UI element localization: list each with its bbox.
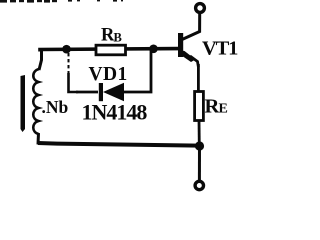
label RE [205,96,228,118]
transistor VT1 collector stroke [182,13,200,40]
wire VD1 row right + loop right vertical [122,49,151,92]
svg-text:E: E [219,102,228,117]
node C bottom junction [195,141,204,150]
svg-text:VT1: VT1 [202,38,238,60]
label RB [101,26,122,46]
node A junction on top wire [62,45,71,54]
label Nb [42,97,69,117]
node B junction on top wire [149,45,158,54]
wire winding bottom to corner [37,133,41,145]
inductor core bar [21,75,26,132]
svg-text:B: B [114,31,122,45]
transistor VT1 emitter stroke with arrow [182,51,199,68]
label VD1 [89,64,128,85]
wire junction to bottom terminal [198,146,201,180]
svg-text:.Nb: .Nb [42,97,69,117]
terminal bottom emitter output [195,181,203,189]
diode VD1 cathode bar [99,83,103,101]
wire VD1 anode row left [76,91,98,94]
resistor RB [96,45,126,55]
wire left vertical (top corner down to winding top) [39,50,42,71]
wire RE bottom to junction [198,120,201,146]
label 1N4148 [82,100,148,125]
wire VD1 loop left vertical lower + corner [69,73,79,92]
cropped text remnants top edge [0,0,123,3]
label VT1 [202,38,238,60]
wire bottom horizontal [38,143,199,146]
wire VD1 loop left vertical (upper dashed part) [68,53,70,74]
wire emitter lead down to RE [197,64,200,92]
svg-text:1N4148: 1N4148 [82,100,148,125]
svg-text:R: R [205,96,220,118]
svg-text:VD1: VD1 [89,64,128,85]
diode VD1 triangle [103,83,124,101]
transistor VT1 base bar [178,33,183,57]
terminal top collector output [196,4,205,13]
resistor RE [195,92,204,121]
wire top horizontal (Nb top to VT1 base) [40,49,178,52]
inductor Nb winding [33,69,39,134]
